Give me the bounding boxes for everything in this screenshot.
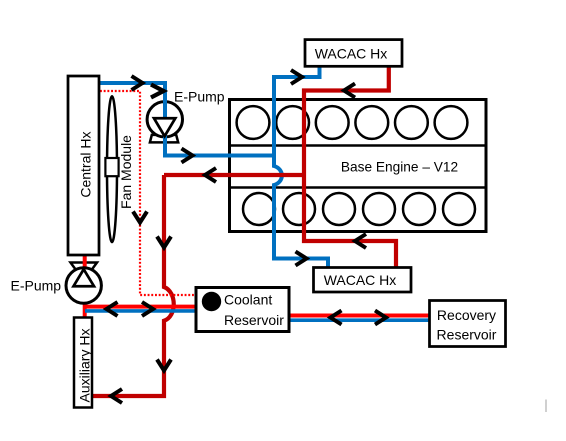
svg-text:WACAC Hx: WACAC Hx [315,46,388,62]
arrow down on dark red return lower [157,360,171,371]
wire: red of right red/blue pair Coolant to Recovery Reservoir [289,314,429,318]
fan hub [105,158,118,176]
lower E-Pump body [66,268,101,303]
arrow right on left reservoir pair [142,302,153,316]
svg-text:Reservoir: Reservoir [437,327,497,343]
arrow left on dark red into Auxiliary Hx [111,389,122,403]
wire: red of left red/blue pair to Coolant Reservoir [83,305,196,309]
upper E-Pump stand [150,135,178,143]
base engine block [230,100,487,232]
WACAC Hx box (top) [305,40,402,67]
arrow right on blue Central Hx top line [132,76,143,90]
arrow left on dark red from top WACAC [344,84,355,98]
svg-text:Base Engine – V12: Base Engine – V12 [341,160,458,175]
auxiliary heat exchanger box [74,318,92,408]
arrow left on left reservoir pair [107,302,118,316]
engine upper divider [230,144,487,147]
arrow right on blue line to top WACAC [291,70,302,84]
wire: dark red return down with hop over reservoir lines, to Auxiliary Hx [92,175,174,396]
lower E-Pump impeller triangle [74,269,95,286]
wire: blue line Central Hx top through E-Pump to engine junction [98,83,272,156]
svg-text:Recovery: Recovery [437,307,496,323]
svg-text:E-Pump: E-Pump [11,278,62,294]
engine cylinders top row [237,106,468,139]
engine cylinders bottom row [243,193,475,225]
svg-text:Central Hx: Central Hx [78,132,94,198]
arrow right on right reservoir pair [375,311,386,325]
wire: dark red from top WACAC Hx down through engine to bottom WACAC Hx [304,64,396,269]
arrow right on blue line to bottom WACAC [296,252,307,266]
lower E-Pump stand [71,263,98,271]
svg-text:Reservoir: Reservoir [224,312,284,328]
engine lower divider [230,186,487,189]
recovery reservoir box [430,301,506,347]
arrow right floating near E-Pump inlet [151,85,164,98]
wire: blue main vertical through engine with hop, to WACAC top and WACAC bottom [274,64,328,269]
arrow left on right reservoir pair [331,311,342,325]
fan blade ellipse [107,96,117,242]
arrow down on dotted control line [133,212,147,223]
arrow down on dark red return upper [157,237,171,248]
coolant reservoir fill dot [202,292,221,311]
wire: dotted red control line from Central Hx to Coolant Reservoir [100,91,195,295]
arrow left on dark red engine return [205,168,216,182]
WACAC Hx box (bottom) [314,268,412,293]
stray cursor mark [545,400,547,413]
arrow right on blue E-Pump outlet line [182,149,193,163]
wire: blue of left red/blue pair to Coolant Reservoir [85,309,196,313]
svg-text:Coolant: Coolant [224,291,272,307]
wire: bright red lower E-Pump outlet down to Auxiliary Hx [83,301,87,318]
svg-text:Fan Module: Fan Module [118,135,134,209]
upper E-Pump impeller triangle [154,118,175,136]
svg-text:WACAC Hx: WACAC Hx [324,272,397,288]
arrow left on dark red from bottom WACAC [355,234,366,248]
wire: bright red Central Hx bottom into lower E-Pump [83,254,87,272]
svg-text:E-Pump: E-Pump [174,89,225,105]
wire: blue of right red/blue pair Coolant to Recovery Reservoir [289,318,429,322]
svg-text:Auxiliary Hx: Auxiliary Hx [77,329,93,403]
wire: dark red return line from engine tee to the left [164,173,304,177]
upper E-Pump body [147,102,182,137]
central heat exchanger box [68,76,99,255]
coolant reservoir box [196,288,289,332]
